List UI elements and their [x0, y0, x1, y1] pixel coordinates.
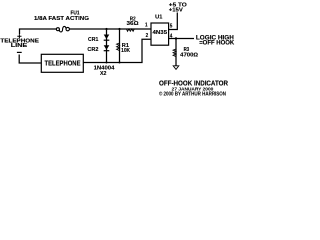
diode CR2 — [104, 45, 110, 50]
diode CR1 — [104, 35, 110, 40]
wire pin4 output — [169, 38, 194, 40]
node junction CR branch top — [105, 28, 107, 30]
wire top rail left segment — [20, 29, 57, 34]
resistor R2 — [127, 29, 135, 31]
wire CR branch — [106, 29, 108, 63]
svg-text:2: 2 — [146, 33, 149, 39]
svg-text:36Ω: 36Ω — [127, 21, 139, 27]
resistor R1 — [119, 29, 121, 63]
minus terminal — [17, 51, 22, 53]
svg-text:U1: U1 — [155, 15, 162, 21]
svg-text:=OFF HOOK: =OFF HOOK — [199, 40, 235, 47]
svg-text:OFF-HOOK INDICATOR: OFF-HOOK INDICATOR — [159, 80, 228, 87]
node junction CR branch bottom — [106, 62, 108, 64]
svg-text:1/8A FAST ACTING: 1/8A FAST ACTING — [34, 16, 90, 22]
wire top rail right segment — [69, 28, 151, 30]
wire pin5 to +V riser — [169, 13, 177, 30]
svg-text:5: 5 — [170, 23, 173, 29]
svg-text:X2: X2 — [100, 71, 106, 77]
optocoupler U1 — [151, 23, 169, 45]
node junction R1 branch bottom — [119, 62, 121, 64]
wire minus to telephone box — [19, 55, 41, 64]
plus terminal — [17, 34, 21, 38]
ground — [173, 66, 179, 70]
svg-text:CR2: CR2 — [87, 47, 98, 53]
node junction R1 branch top — [118, 28, 120, 30]
svg-text:1: 1 — [145, 23, 148, 29]
fuse FU1 — [56, 26, 69, 31]
node junction R3 — [175, 37, 177, 39]
resistor R3 — [175, 39, 177, 67]
bottom rail wire — [83, 39, 151, 62]
svg-text:10K: 10K — [121, 48, 130, 54]
svg-text:4700Ω: 4700Ω — [180, 53, 198, 59]
svg-text:© 2000 BY ARTHUR HARRISON: © 2000 BY ARTHUR HARRISON — [159, 91, 226, 98]
svg-text:LINE: LINE — [11, 43, 28, 49]
telephone box — [41, 54, 83, 72]
svg-text:4N35: 4N35 — [153, 30, 168, 36]
svg-text:+15V: +15V — [169, 7, 183, 13]
svg-text:TELEPHONE: TELEPHONE — [45, 60, 81, 67]
svg-text:CR1: CR1 — [88, 37, 98, 43]
